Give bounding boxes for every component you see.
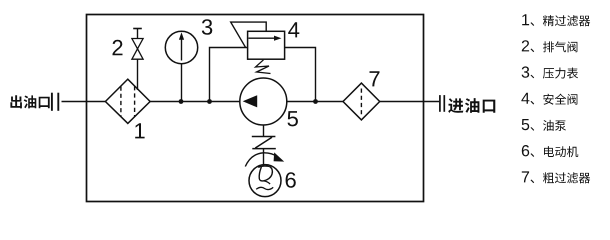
wire: valve 2 to filter 1 body	[137, 59, 139, 90]
legend line 3: 压力表	[522, 66, 579, 78]
coarse filter 7 (diamond symbol)	[343, 83, 380, 120]
legend line 4: 安全阀	[521, 93, 577, 105]
wire: filter 1 to pump 5	[150, 101, 240, 103]
port symbol: double bars (inlet)	[440, 95, 444, 112]
pressure gauge 3 (circle with arrow)	[165, 31, 197, 63]
coupling zigzag between pump and motor	[252, 137, 276, 149]
electric motor 6 (circle with script M and tilde)	[249, 165, 281, 197]
label 4	[288, 22, 299, 37]
label 3	[202, 19, 213, 35]
wire: outlet port to filter 1	[62, 101, 107, 103]
label 7	[370, 71, 380, 86]
oil pump 5 (circle with solid triangle)	[240, 78, 287, 125]
label 2	[113, 40, 123, 55]
legend line 6: 电动机	[522, 145, 578, 157]
port label 进油口 (oil inlet)	[448, 98, 495, 113]
label 1	[135, 123, 144, 138]
legend line 2: 排气阀	[522, 40, 578, 52]
legend line 7: 粗过滤器	[522, 171, 590, 183]
port symbol: double bars (outlet)	[52, 93, 58, 111]
exhaust valve 2 (bowtie with cap)	[132, 29, 143, 60]
wire: pump 5 shaft down	[263, 125, 265, 136]
port label 出油口 (oil outlet)	[10, 95, 49, 108]
enclosure box	[87, 15, 424, 202]
junction: safety valve return	[313, 99, 318, 104]
wire: safety valve 4 outlet down to main line	[285, 48, 316, 102]
wire: pump 5 to filter 7	[287, 101, 343, 103]
junction: safety valve tap	[207, 99, 212, 104]
rotation arrow over motor	[245, 152, 284, 166]
wire: tap up and into safety valve 4	[210, 48, 248, 102]
junction: gauge tap	[179, 99, 184, 104]
safety valve 4 (square, arrow, pilot flag, spring)	[231, 22, 285, 73]
legend line 1: 精过滤器	[522, 14, 590, 26]
label 6	[286, 172, 296, 188]
wire: shaft to motor 6	[263, 149, 265, 165]
legend line 5: 油泵	[522, 119, 566, 131]
fine filter 1 (diamond symbol)	[105, 79, 150, 123]
wire: gauge 3 stem to main line	[181, 64, 183, 102]
label 5	[288, 111, 298, 126]
wire: filter 7 to inlet port	[380, 101, 439, 103]
